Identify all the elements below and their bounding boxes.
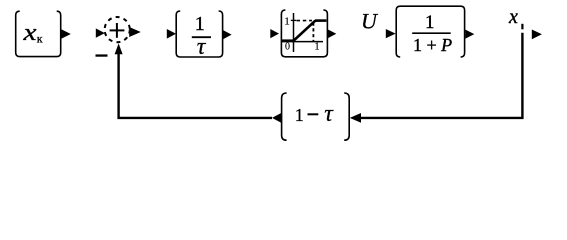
arrowhead into summing junction bbox=[96, 28, 105, 37]
wire feedback left horizontal and up to junction bbox=[119, 54, 272, 118]
svg-text:τ: τ bbox=[197, 34, 207, 60]
arrowhead feedback into summing junction (up) bbox=[115, 43, 123, 54]
label x_k bbox=[22, 20, 43, 46]
arrowhead into saturation block bbox=[270, 29, 279, 38]
saturation graph y-axis bbox=[293, 13, 295, 52]
wire feedback right vertical and bottom horizontal bbox=[361, 33, 522, 118]
plus sign in summing junction bbox=[110, 23, 125, 38]
wire stub below output label bbox=[521, 24, 523, 30]
arrowhead output x (right) bbox=[532, 30, 542, 40]
arrowhead output of block 1/(1+P) bbox=[465, 30, 474, 39]
arrowhead output of block xk bbox=[61, 29, 71, 39]
saturation graph x-axis bbox=[282, 41, 323, 43]
saturation curve upper segment bbox=[315, 19, 326, 22]
label 1-tau bbox=[295, 101, 335, 127]
svg-text:к: к bbox=[37, 31, 43, 45]
arrowhead into block 1/(1+P) bbox=[386, 29, 396, 38]
svg-text:x: x bbox=[508, 6, 518, 28]
block 1/tau (integrator) bbox=[176, 11, 222, 57]
svg-text:1: 1 bbox=[425, 12, 435, 33]
dashed level line at y=1 bbox=[297, 20, 313, 22]
svg-text:U: U bbox=[361, 9, 379, 34]
svg-text:x: x bbox=[22, 20, 37, 46]
arrowhead output of saturation block bbox=[327, 29, 336, 39]
arrowhead output of block 1/tau bbox=[223, 30, 232, 39]
block xk (input setpoint block) bbox=[16, 11, 61, 56]
arrowhead into block 1/tau bbox=[167, 29, 176, 39]
svg-text:0: 0 bbox=[285, 42, 290, 53]
svg-text:1: 1 bbox=[195, 13, 205, 35]
svg-text:1: 1 bbox=[315, 42, 320, 53]
saturation curve lower segment bbox=[282, 39, 294, 42]
block 1/(1+P) (plant) bbox=[396, 6, 464, 57]
saturation graph y-axis tick bbox=[291, 19, 296, 21]
label 1/(1+P) fraction bbox=[412, 12, 452, 55]
arrowhead into block 1-tau (leftwards) bbox=[350, 113, 361, 123]
block saturation nonlinearity bbox=[281, 10, 327, 57]
svg-text:1: 1 bbox=[295, 105, 304, 125]
arrowhead output of block 1-tau (leftwards) bbox=[272, 113, 281, 123]
minus sign (feedback input sign) bbox=[96, 54, 108, 56]
svg-text:1 + P: 1 + P bbox=[413, 35, 452, 55]
svg-text:τ: τ bbox=[324, 101, 334, 127]
label 1/tau fraction bbox=[192, 13, 211, 60]
block 1-tau (feedback gain) bbox=[282, 93, 350, 140]
svg-text:1: 1 bbox=[284, 16, 290, 28]
summing junction (dashed circle) bbox=[105, 17, 130, 42]
dashed knee line at x=1 bbox=[312, 23, 314, 42]
arrowhead output of summing junction bbox=[129, 27, 141, 37]
saturation curve ramp segment bbox=[294, 21, 316, 41]
